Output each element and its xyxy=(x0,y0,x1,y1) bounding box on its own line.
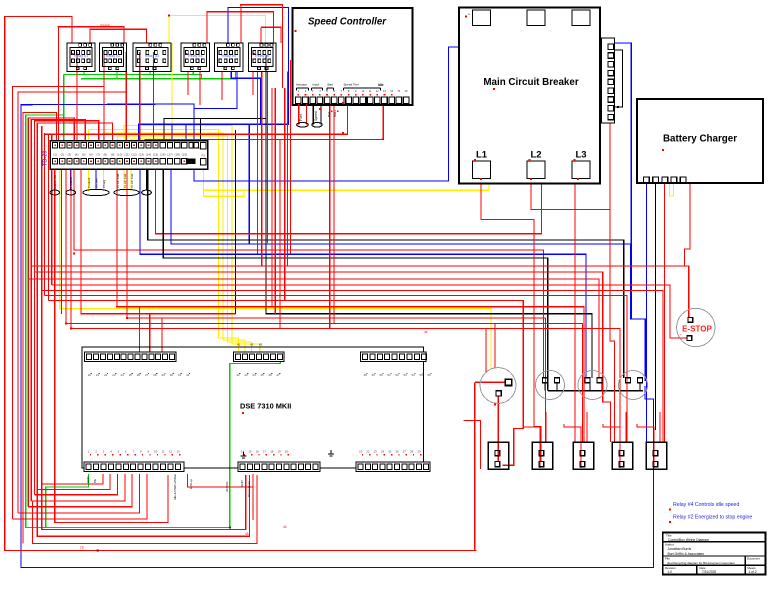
DSE top-right terminal strip xyxy=(361,352,427,362)
wire green tb drop xyxy=(63,115,65,141)
wire red dse idle loop xyxy=(55,168,168,523)
relay K6 Relay #6 xyxy=(249,43,277,72)
wire blue mcb strip to sender xyxy=(612,43,631,319)
svg-text:19: 19 xyxy=(277,450,281,454)
svg-text:Charg: Charg xyxy=(102,179,106,188)
svg-text:dT/ChG: dT/ChG xyxy=(225,481,229,492)
wire red left outer loop xyxy=(5,17,477,551)
svg-text:(9): (9) xyxy=(111,153,115,157)
svg-text:Batt+: Batt+ xyxy=(333,110,337,117)
wire red relay6 drop xyxy=(252,72,254,96)
wire red L2 xyxy=(531,179,610,209)
svg-text:Relay #6: Relay #6 xyxy=(255,54,269,58)
wire red g1 feed xyxy=(475,381,506,383)
wire red g1 tap xyxy=(474,382,476,550)
wire green dse pin stub xyxy=(279,357,281,362)
main circuit breaker CB1 xyxy=(459,8,600,184)
wire red bundle v9 xyxy=(290,60,292,254)
svg-text:Relay #2 Energized to stop eng: Relay #2 Energized to stop engine xyxy=(673,515,752,521)
wire red stair b7 xyxy=(12,474,147,519)
wire red mid m2 xyxy=(34,272,610,442)
wire green relay bus 2 xyxy=(81,72,235,79)
svg-text:18: 18 xyxy=(270,450,274,454)
svg-text:44: 44 xyxy=(283,525,287,529)
svg-text:(2): (2) xyxy=(60,153,64,157)
wire yellow coolant xyxy=(89,129,239,356)
wire red relay-TB drop xyxy=(103,52,105,141)
wire black bus stub4 xyxy=(639,383,641,391)
svg-text:24: 24 xyxy=(381,450,385,454)
gauge sender G2 xyxy=(536,371,565,400)
wire green gnd stub2 xyxy=(116,72,118,79)
svg-text:22: 22 xyxy=(366,450,370,454)
junction j19 xyxy=(97,549,99,551)
wire red stair b1 xyxy=(42,474,103,484)
junction green xyxy=(229,527,231,529)
starter solenoid xyxy=(50,190,60,195)
wire green gnd stub xyxy=(83,72,85,75)
svg-text:(14): (14) xyxy=(146,153,151,157)
svg-text:(4): (4) xyxy=(75,153,79,157)
wire red r4 top xyxy=(207,12,274,43)
junction xyxy=(73,253,75,255)
junction xyxy=(480,178,482,180)
svg-text:To AC Cab: To AC Cab xyxy=(116,173,120,188)
relay K3 Relay #3 xyxy=(133,43,171,72)
wire blue bundle v xyxy=(231,72,260,125)
svg-text:(16): (16) xyxy=(160,153,165,157)
wire red conn hook xyxy=(637,424,654,468)
connector J1 xyxy=(488,442,509,469)
wire red bus v48 xyxy=(47,135,49,301)
svg-text:xled Recycling diagram for BGJ: xled Recycling diagram for BGJunqmum Gen… xyxy=(667,561,735,565)
svg-text:25: 25 xyxy=(388,450,392,454)
wire yellow circle1 xyxy=(60,164,491,369)
svg-text:49: 49 xyxy=(424,330,428,334)
junction xyxy=(342,102,344,104)
wire red sc5 xyxy=(329,104,331,329)
junction xyxy=(58,26,60,28)
svg-text:Relay #1: Relay #1 xyxy=(74,54,88,58)
svg-text:GND: GND xyxy=(240,480,244,488)
svg-text:To AC Cab: To AC Cab xyxy=(130,173,134,188)
svg-text:(1): (1) xyxy=(53,153,57,157)
junction xyxy=(240,4,242,6)
svg-text:19: 19 xyxy=(80,546,84,550)
wire black sender stub xyxy=(601,383,603,391)
MCB aux terminal strip xyxy=(602,38,615,123)
wire red sc6 xyxy=(333,104,335,324)
wire black relay6 long xyxy=(266,55,592,378)
engine senders xyxy=(83,189,109,195)
wire red dse e-stop loop xyxy=(188,474,254,487)
wire red stair b4 xyxy=(31,474,125,501)
wire green relay4 stub xyxy=(192,72,194,75)
wire yellow L1 long xyxy=(204,165,489,191)
ground symbol inside DSE xyxy=(243,452,245,456)
svg-text:Document: Document xyxy=(747,557,760,561)
svg-text:Fuel: Fuel xyxy=(299,114,303,121)
wire red box1 hook xyxy=(464,421,481,469)
junction xyxy=(70,328,72,330)
wire red L1 xyxy=(481,179,541,462)
wire red dse tl1 xyxy=(139,307,141,354)
svg-text:Burt Griffin & Associates: Burt Griffin & Associates xyxy=(668,552,705,556)
wire red L3 xyxy=(574,179,576,442)
junction xyxy=(494,404,496,406)
svg-text:Relay #5: Relay #5 xyxy=(222,54,236,58)
svg-text:(12): (12) xyxy=(131,153,136,157)
wire red bundle v8 xyxy=(287,72,289,267)
wire yellow relay3-6 top xyxy=(169,16,266,43)
wire red corner t5 xyxy=(37,123,112,489)
connector J2 xyxy=(532,442,553,469)
wire red mcb strip xyxy=(610,112,615,442)
wire red conn hook2 xyxy=(659,412,661,443)
svg-text:(6): (6) xyxy=(89,153,93,157)
title block xyxy=(663,533,766,575)
wire black bus2 xyxy=(148,169,624,378)
wire red conn hook xyxy=(564,424,581,468)
terminal block TB-20 xyxy=(50,141,208,170)
wire red conn hook2 xyxy=(586,412,588,443)
svg-text:27: 27 xyxy=(403,450,407,454)
wire red rv1 xyxy=(267,72,269,244)
wire red conn hook xyxy=(603,424,620,468)
svg-text:PE: PE xyxy=(93,479,97,483)
svg-text:(18): (18) xyxy=(174,153,179,157)
svg-text:File: File xyxy=(665,557,670,561)
wire yellow ac1 xyxy=(118,136,252,356)
wire red r1 drop xyxy=(58,27,60,141)
junction xyxy=(126,317,128,319)
svg-text:GND: GND xyxy=(86,476,90,484)
svg-text:To Starter: To Starter xyxy=(69,177,73,190)
svg-text:23: 23 xyxy=(374,450,378,454)
wire red corner t0b xyxy=(18,92,126,513)
wire red mid m3 xyxy=(28,279,599,378)
svg-text:11: 11 xyxy=(162,450,165,454)
svg-text:Relay #4: Relay #4 xyxy=(188,54,202,58)
svg-text:Relay #2: Relay #2 xyxy=(106,54,120,58)
AC cabinet feed xyxy=(114,189,139,195)
wire red c1 left xyxy=(485,329,487,373)
svg-text:To AC Cab: To AC Cab xyxy=(123,173,127,188)
svg-text:Idle: Idle xyxy=(378,83,384,87)
svg-text:L2: L2 xyxy=(530,150,541,161)
wire black bundle mid xyxy=(235,130,237,314)
wire yellow ac2 xyxy=(124,126,260,357)
wire green relay bus xyxy=(64,74,202,76)
svg-text:Batt: Batt xyxy=(328,83,334,87)
svg-text:F1: F1 xyxy=(197,146,201,150)
wire blue battery charger xyxy=(646,183,648,442)
wire red mid m8 xyxy=(117,168,584,442)
wire black bus6 c2 xyxy=(163,169,548,391)
svg-text:16: 16 xyxy=(256,450,260,454)
wire yellow f2 stub xyxy=(204,190,245,196)
wire blue starter xyxy=(70,166,72,190)
svg-text:(15): (15) xyxy=(153,153,158,157)
wire black bus stub3 xyxy=(589,383,591,391)
wire red corner t4 xyxy=(34,121,98,495)
svg-text:15: 15 xyxy=(248,450,252,454)
connector J4 xyxy=(612,442,633,469)
svg-text:Batt -: Batt - xyxy=(327,110,331,117)
wire red r5 top xyxy=(241,5,283,88)
svg-text:13: 13 xyxy=(176,450,180,454)
wire yellow charge xyxy=(104,133,246,356)
junction xyxy=(382,138,384,140)
svg-text:43: 43 xyxy=(259,343,263,347)
wire black bus stub2 xyxy=(556,383,558,391)
wire red corner t1 xyxy=(23,112,57,543)
wire red bc2 xyxy=(664,183,666,442)
svg-text:Speed Trim: Speed Trim xyxy=(344,83,360,87)
gauge sender G1 xyxy=(480,368,516,404)
wire blue bundle v2 xyxy=(248,124,250,244)
wire red conn hook xyxy=(523,424,540,468)
svg-text:L3: L3 xyxy=(575,150,586,161)
DSE bottom-right terminal strip xyxy=(356,462,430,472)
wire yellow ac3 xyxy=(131,43,172,191)
wire green gnd stub3 xyxy=(149,72,151,75)
wire red dse b46 xyxy=(32,475,257,544)
svg-text:1 of 2: 1 of 2 xyxy=(749,570,757,574)
wire blue tb drop2 xyxy=(185,125,187,142)
wire blue oil sender xyxy=(95,166,97,189)
speed actuator xyxy=(312,104,314,125)
junction xyxy=(342,132,344,134)
wire red corner t0 xyxy=(12,87,104,520)
wire red dse b44 xyxy=(42,475,246,530)
svg-text:(10): (10) xyxy=(117,153,122,157)
wire red mid m5 xyxy=(42,291,663,443)
svg-text:(Starter Hd: (Starter Hd xyxy=(53,175,57,190)
wire blue relay5 drop xyxy=(194,72,237,109)
gauge sender G3 xyxy=(578,371,607,400)
connector J3 xyxy=(573,442,594,469)
svg-text:Oil Sen: Oil Sen xyxy=(95,178,99,188)
svg-text:Battery Charger: Battery Charger xyxy=(663,134,737,145)
svg-text:(11): (11) xyxy=(124,153,129,157)
wire green bus join xyxy=(201,75,203,79)
svg-text:E-St op: E-St op xyxy=(189,479,193,489)
svg-text:TB-20: TB-20 xyxy=(43,150,49,166)
svg-text:F2: F2 xyxy=(202,154,206,158)
wire red mid m9 xyxy=(127,168,546,442)
wire yellow bc U xyxy=(670,183,674,196)
svg-text:41: 41 xyxy=(237,343,241,347)
DSE top-mid terminal strip xyxy=(233,352,284,362)
svg-text:Coolant: Coolant xyxy=(87,177,91,188)
wire red c1 top xyxy=(494,324,496,368)
wire red rv3 xyxy=(274,88,276,314)
wire red sc7 xyxy=(45,104,348,134)
wire red mid m1 xyxy=(31,266,688,317)
wire red corner t3 xyxy=(31,120,85,502)
wire red mid m6 xyxy=(45,296,628,443)
wire red relay-TB drop xyxy=(76,52,78,141)
relay K1 Relay #1 xyxy=(67,43,95,72)
svg-text:E-STOP: E-STOP xyxy=(682,325,712,334)
svg-text:7/31/2025: 7/31/2025 xyxy=(702,570,716,574)
wire black sender bus xyxy=(548,390,643,392)
wire red relay-TB drop xyxy=(125,52,127,141)
svg-text:26: 26 xyxy=(395,450,399,454)
svg-text:10: 10 xyxy=(154,450,158,454)
wire red mid m12 xyxy=(71,168,620,442)
svg-text:(3): (3) xyxy=(68,153,72,157)
DSE bottom-left terminal strip xyxy=(84,462,184,472)
svg-text:Speed Controller: Speed Controller xyxy=(308,17,387,28)
wire red stair b5 xyxy=(28,474,132,507)
svg-text:(13): (13) xyxy=(139,153,144,157)
wire red bundle v6 xyxy=(257,72,259,254)
wire red g1 sq2 xyxy=(497,397,499,463)
wire red starter hd xyxy=(54,164,56,190)
svg-text:Interlock: Interlock xyxy=(100,23,111,27)
wire red corner t2 xyxy=(28,118,74,507)
wire black f1 stub xyxy=(200,119,202,142)
wire red conn hook2 xyxy=(545,412,547,443)
ground lug xyxy=(142,190,152,195)
svg-text:12: 12 xyxy=(169,450,173,454)
wire red bundle v7 xyxy=(261,72,263,267)
starter motor xyxy=(66,190,76,195)
wire red relay5 drop xyxy=(221,72,223,101)
svg-text:Relay #4 Controls idle speed: Relay #4 Controls idle speed xyxy=(673,502,739,508)
svg-text:Input: Input xyxy=(313,83,320,87)
controller U2 DSE 7310 MKII xyxy=(82,347,424,468)
wire red dse tl2 xyxy=(149,314,151,354)
svg-text:21: 21 xyxy=(359,450,363,454)
relay K5 Relay #5 xyxy=(215,43,244,72)
battery charger PS1 xyxy=(637,99,763,183)
svg-text:14: 14 xyxy=(241,450,245,454)
svg-text:1.0: 1.0 xyxy=(668,570,673,574)
svg-text:45: 45 xyxy=(245,532,249,536)
wire red r1-r3 top xyxy=(90,29,147,43)
svg-text:(5): (5) xyxy=(82,153,86,157)
svg-text:Oil pressure: Oil pressure xyxy=(247,480,251,497)
junction xyxy=(577,178,579,180)
wire red relay-TB drop xyxy=(139,52,141,141)
wire red bus v61 xyxy=(61,168,63,314)
junction xyxy=(168,15,170,17)
wire red rv5 xyxy=(284,88,286,301)
wire red r6 top2 xyxy=(261,27,281,43)
connector J5 xyxy=(646,442,667,469)
speed controller U1 xyxy=(293,8,413,105)
wire red bc1 xyxy=(685,183,691,266)
wire red relay4 drop xyxy=(187,72,189,96)
svg-text:Speed: Speed xyxy=(314,111,318,121)
wire red bus v44 xyxy=(44,133,46,296)
svg-text:Relay #3: Relay #3 xyxy=(145,54,159,58)
wire red dse oil xyxy=(252,474,254,520)
wire red g1 down xyxy=(495,396,497,398)
wire black bus stub1 xyxy=(544,383,546,391)
wire blue tb drop1 xyxy=(171,125,173,142)
wire red dse b45 xyxy=(37,475,249,536)
svg-text:42: 42 xyxy=(250,343,254,347)
svg-text:Idle & PWR uP/Dwl: Idle & PWR uP/Dwl xyxy=(173,474,177,500)
relay K4 Relay #4 xyxy=(181,43,210,72)
wire red relay4 drop2 xyxy=(199,72,201,106)
svg-text:(19): (19) xyxy=(182,153,187,157)
wire red bus v41 xyxy=(41,126,43,484)
svg-text:Actuator: Actuator xyxy=(296,83,307,87)
wire red mid m4 xyxy=(52,285,687,338)
wire red mid m11 xyxy=(66,168,582,442)
ground symbol 2 inside DSE xyxy=(330,450,332,454)
svg-text:(17): (17) xyxy=(167,153,172,157)
svg-text:17: 17 xyxy=(263,450,267,454)
wire red sc13b xyxy=(279,139,281,328)
wire blue bus3 xyxy=(171,169,645,381)
wire blue MCB loop xyxy=(21,47,654,568)
wire black tb relay6 xyxy=(164,119,266,142)
wire red bus1 L2 xyxy=(155,164,541,234)
svg-text:(8): (8) xyxy=(104,153,108,157)
svg-text:Gnd: Gnd xyxy=(145,184,149,190)
wire blue bus5 c3 xyxy=(140,169,586,378)
wire red mid m7 xyxy=(48,301,523,466)
fuel actuator xyxy=(298,104,300,125)
wire red stair b3 xyxy=(34,474,117,495)
wire red conn hook2 xyxy=(625,412,627,443)
wire red bus v51 xyxy=(51,135,53,285)
svg-text:Author: Author xyxy=(665,542,674,546)
junction xyxy=(116,306,118,308)
wire red r1-r2 top xyxy=(59,27,125,43)
wire red sc13 xyxy=(145,104,383,141)
DSE bottom-mid terminal strip xyxy=(238,462,320,472)
wire red rv2 xyxy=(271,88,273,307)
wire red bus4 c2 xyxy=(74,168,544,378)
emergency stop switch S1 xyxy=(677,308,715,346)
wire red stair b2 xyxy=(37,474,110,490)
wire red dse tl3 xyxy=(161,318,163,354)
wire black battery charger xyxy=(655,183,657,430)
svg-text:Jonathan Burris: Jonathan Burris xyxy=(668,547,692,551)
wire green dse gnd xyxy=(46,474,89,528)
wire red mid m10 xyxy=(81,168,236,314)
svg-text:(7): (7) xyxy=(96,153,100,157)
wire blue relay5 TB xyxy=(139,8,289,142)
wire green main loop xyxy=(26,75,281,528)
svg-text:L1: L1 xyxy=(476,150,488,161)
wire red r6 top xyxy=(260,27,262,43)
gauge sender G4 xyxy=(619,371,648,400)
svg-text:20: 20 xyxy=(285,450,289,454)
wire red stair b6 xyxy=(18,474,140,513)
junction xyxy=(530,178,532,180)
wire black gnd lug xyxy=(146,168,148,190)
svg-text:DSE 7310 MKII: DSE 7310 MKII xyxy=(240,402,291,411)
DSE top-left terminal strip xyxy=(85,352,177,362)
junction xyxy=(65,323,67,325)
relay K2 Relay #2 xyxy=(100,43,127,72)
svg-text:28: 28 xyxy=(410,450,414,454)
wire red relay-TB drop xyxy=(153,52,155,141)
svg-text:29: 29 xyxy=(417,450,421,454)
svg-text:ControlBox Wiring Diagram: ControlBox Wiring Diagram xyxy=(668,538,709,542)
svg-text:Main Circuit Breaker: Main Circuit Breaker xyxy=(483,77,578,88)
